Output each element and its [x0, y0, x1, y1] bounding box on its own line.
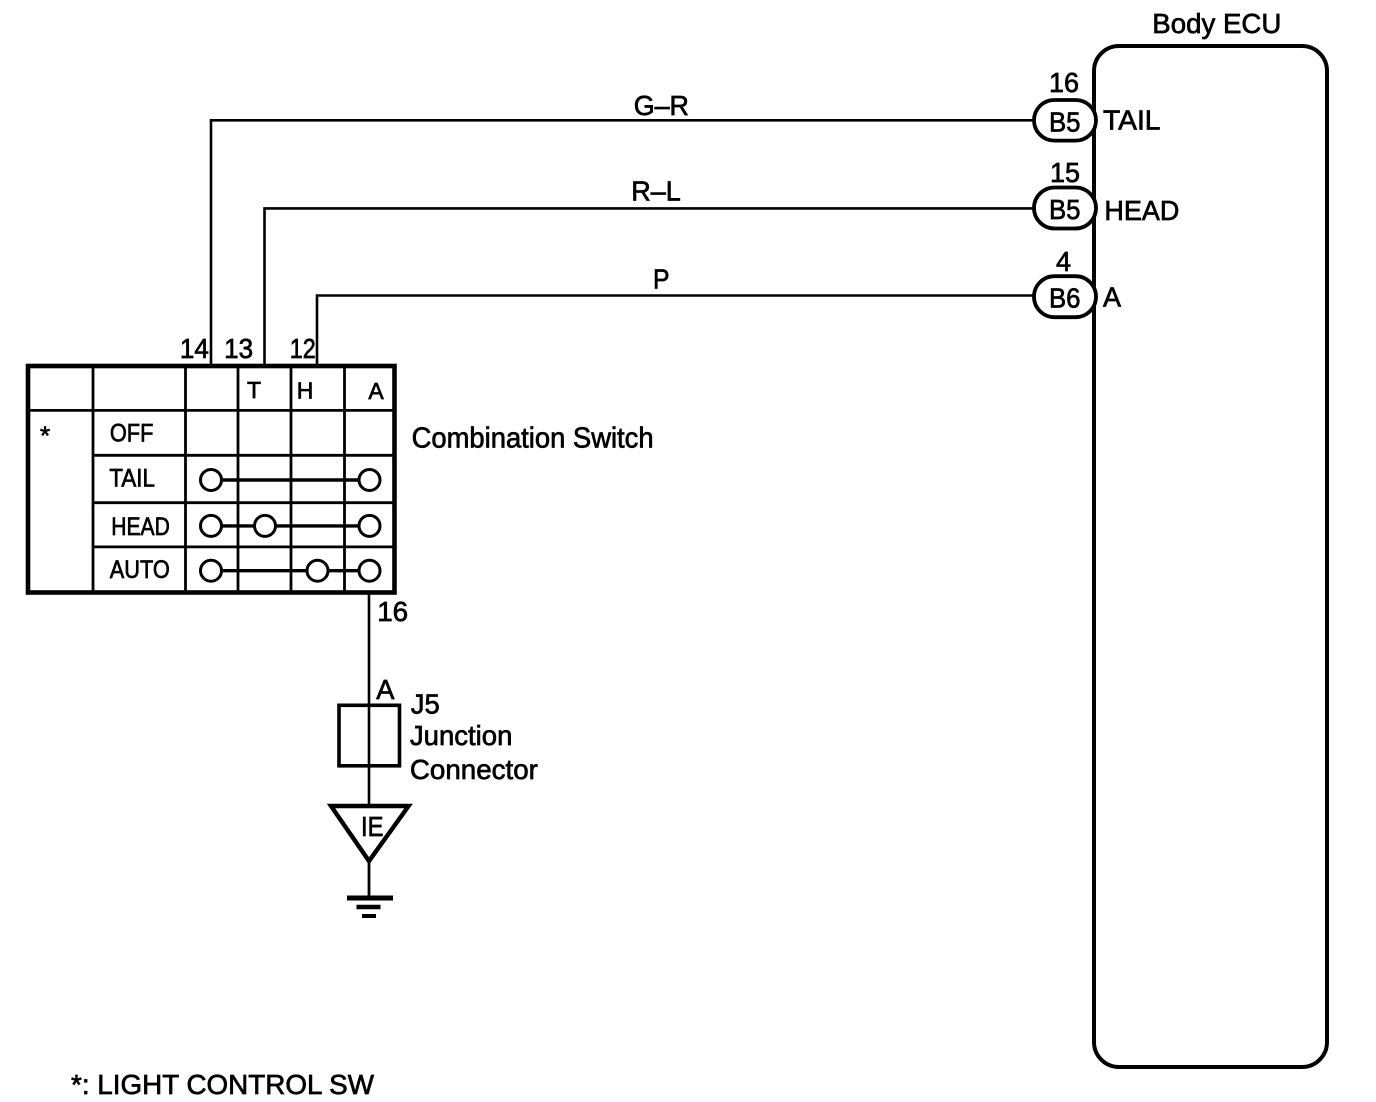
node A label (J5 pin) — [376, 674, 395, 705]
Junction label — [410, 720, 513, 751]
svg-text:A: A — [376, 674, 395, 705]
connector B5 pin 16 — [1034, 100, 1096, 141]
table column divider 4 — [290, 364, 293, 593]
svg-text:A: A — [368, 378, 384, 404]
svg-text:12: 12 — [290, 333, 316, 364]
pin 15 label (Body ECU HEAD) — [1050, 157, 1080, 188]
pin 12 label (combination switch) — [290, 333, 316, 364]
svg-text:13: 13 — [224, 333, 253, 364]
TAIL row contact circle pin A — [359, 470, 380, 491]
row label HEAD — [111, 513, 170, 541]
svg-text:B6: B6 — [1049, 283, 1081, 314]
pin name A — [1103, 282, 1121, 313]
connector B6 pin 4 — [1034, 276, 1096, 317]
header label T — [247, 377, 261, 403]
combination switch table outer border — [28, 366, 395, 593]
wire triangle apex to ground — [368, 861, 371, 897]
wire label R-L — [631, 176, 681, 207]
svg-text:Junction: Junction — [410, 720, 513, 751]
pin 13 label (combination switch) — [224, 333, 253, 364]
svg-text:16: 16 — [1049, 67, 1079, 98]
wire G-R (combination switch pin 14 to Body ECU B5-16) — [211, 120, 1035, 366]
svg-text:TAIL: TAIL — [109, 464, 155, 492]
connector B5 pin 15 — [1034, 188, 1096, 229]
svg-text:TAIL: TAIL — [1103, 105, 1161, 136]
svg-text:G–R: G–R — [634, 90, 689, 121]
svg-text:OFF: OFF — [110, 420, 153, 448]
svg-text:HEAD: HEAD — [111, 513, 170, 541]
table column divider 2 — [184, 364, 187, 593]
asterisk footnote mark — [40, 421, 50, 451]
wire label P — [653, 264, 670, 295]
svg-text:14: 14 — [180, 333, 209, 364]
svg-text:T: T — [247, 377, 261, 403]
svg-text:AUTO: AUTO — [110, 556, 170, 584]
AUTO row contact circle pin 14 — [201, 560, 222, 581]
table column divider 5 — [343, 364, 346, 593]
wire R-L (combination switch pin 13 to Body ECU B5-15) — [265, 208, 1036, 366]
svg-text:B5: B5 — [1049, 194, 1081, 225]
svg-text:Body ECU: Body ECU — [1152, 8, 1281, 39]
header label H — [297, 378, 314, 404]
HEAD row contact circle T — [255, 515, 276, 536]
AUTO row contact circle A — [359, 560, 380, 581]
table column divider 3 — [237, 364, 240, 593]
svg-text:Connector: Connector — [410, 754, 538, 785]
svg-text:*: LIGHT CONTROL SW: *: LIGHT CONTROL SW — [71, 1069, 375, 1100]
junction connector J5 box — [339, 705, 400, 766]
svg-text:A: A — [1103, 282, 1121, 313]
pin 4 label (Body ECU A) — [1056, 246, 1071, 277]
table row divider TAIL/HEAD — [93, 501, 396, 504]
J5 designator label — [411, 688, 440, 719]
table header row divider — [26, 409, 396, 412]
Combination Switch label — [412, 422, 654, 454]
row label AUTO — [110, 556, 170, 584]
pin name HEAD — [1104, 195, 1179, 226]
header label A — [368, 378, 384, 404]
HEAD row contact link — [211, 524, 370, 527]
pin 14 label (combination switch) — [180, 333, 209, 364]
row label OFF — [110, 420, 153, 448]
wire P (combination switch pin 12 to Body ECU B6-4) — [317, 296, 1035, 367]
svg-text:16: 16 — [377, 596, 408, 627]
svg-text:B5: B5 — [1049, 106, 1081, 137]
svg-text:J5: J5 — [411, 688, 440, 719]
svg-text:HEAD: HEAD — [1104, 195, 1179, 226]
HEAD row contact circle pin 14 — [201, 515, 222, 536]
svg-text:H: H — [297, 378, 314, 404]
svg-text:*: * — [40, 421, 50, 451]
AUTO row contact circle H — [307, 560, 328, 581]
footnote: LIGHT CONTROL SW — [71, 1069, 375, 1100]
table column divider 1 — [92, 364, 95, 593]
svg-text:IE: IE — [361, 811, 384, 842]
wire combination switch pin 16 down to J5 and triangle — [368, 591, 371, 808]
svg-text:Combination Switch: Combination Switch — [412, 422, 654, 454]
IE net triangle — [331, 806, 409, 861]
svg-text:4: 4 — [1056, 246, 1071, 277]
Body ECU label — [1152, 8, 1281, 39]
TAIL row contact circle pin 14 — [201, 470, 222, 491]
svg-text:P: P — [653, 264, 670, 295]
Connector label — [410, 754, 538, 785]
svg-text:R–L: R–L — [631, 176, 681, 207]
AUTO row contact link — [211, 569, 370, 572]
table row divider HEAD/AUTO — [93, 546, 396, 549]
TAIL row contact link — [211, 478, 370, 481]
table row divider OFF/TAIL — [93, 454, 396, 457]
pin name TAIL — [1103, 105, 1161, 136]
ground — [347, 898, 393, 916]
Body ECU box — [1094, 46, 1327, 1067]
row label TAIL — [109, 464, 155, 492]
pin 16 label (combination switch bottom) — [377, 596, 408, 627]
HEAD row contact circle A — [359, 515, 380, 536]
svg-text:15: 15 — [1050, 157, 1080, 188]
wire label G-R — [634, 90, 689, 121]
pin 16 label (Body ECU TAIL) — [1049, 67, 1079, 98]
